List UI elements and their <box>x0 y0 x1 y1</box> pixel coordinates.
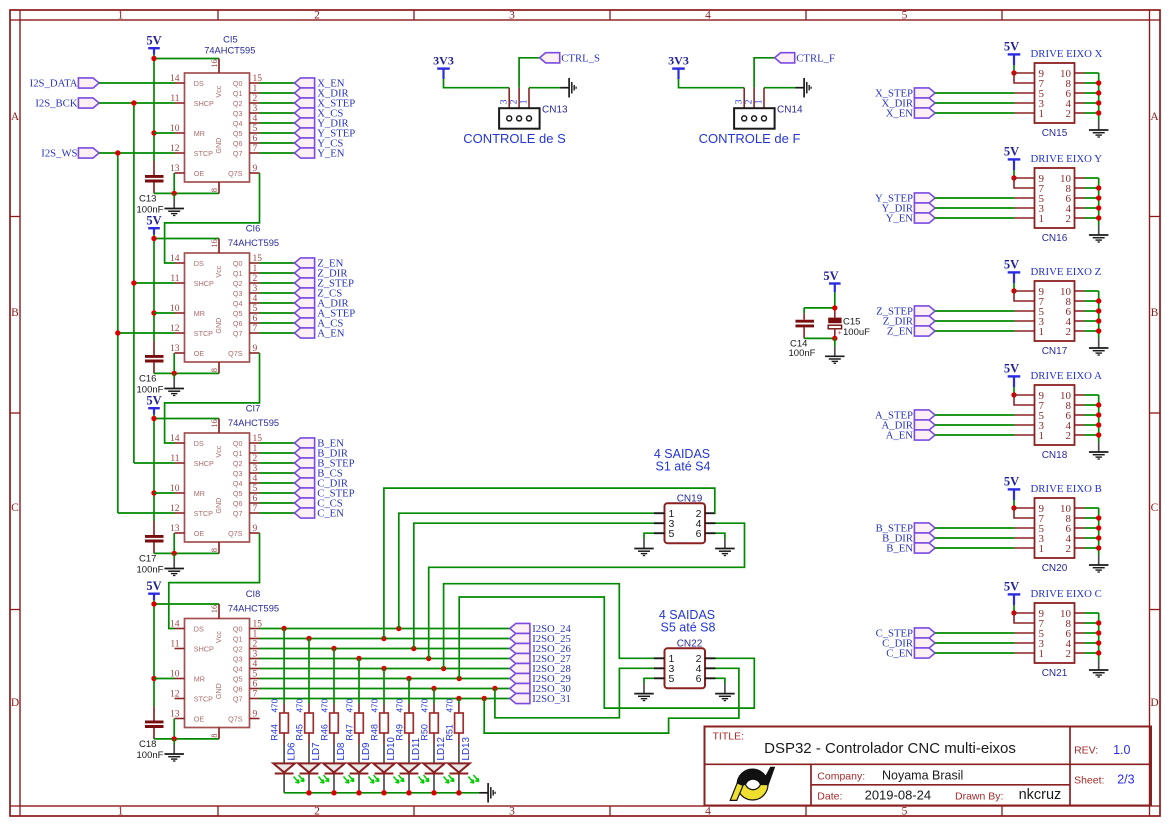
svg-text:DS: DS <box>194 439 204 448</box>
svg-text:9: 9 <box>253 709 258 719</box>
svg-text:74AHCT595: 74AHCT595 <box>228 418 279 428</box>
svg-text:6: 6 <box>696 528 702 540</box>
svg-text:CN16: CN16 <box>1042 233 1068 244</box>
svg-text:1: 1 <box>118 9 124 21</box>
svg-text:CONTROLE de F: CONTROLE de F <box>699 131 801 146</box>
svg-text:2: 2 <box>253 274 258 284</box>
svg-text:3: 3 <box>509 805 515 817</box>
svg-text:A: A <box>1150 111 1159 123</box>
svg-text:LD6: LD6 <box>286 742 297 761</box>
svg-text:1: 1 <box>519 99 529 104</box>
svg-text:Q7: Q7 <box>233 149 243 158</box>
svg-text:16: 16 <box>209 605 219 614</box>
svg-text:Q6: Q6 <box>233 499 243 508</box>
svg-text:Vcc: Vcc <box>214 85 223 97</box>
svg-text:74AHCT595: 74AHCT595 <box>228 238 279 248</box>
svg-text:Q5: Q5 <box>233 489 243 498</box>
svg-text:Q0: Q0 <box>233 79 243 88</box>
svg-text:STCP: STCP <box>194 329 213 338</box>
svg-text:11: 11 <box>170 639 179 649</box>
svg-text:Q4: Q4 <box>233 479 243 488</box>
svg-text:CN18: CN18 <box>1042 450 1068 461</box>
svg-text:DS: DS <box>194 624 204 633</box>
svg-text:8: 8 <box>209 733 219 737</box>
svg-text:DRIVE EIXO Z: DRIVE EIXO Z <box>1031 266 1102 278</box>
svg-text:1: 1 <box>1039 430 1045 442</box>
svg-text:B: B <box>11 307 19 319</box>
svg-text:Q6: Q6 <box>233 139 243 148</box>
svg-text:OE: OE <box>194 529 205 538</box>
svg-text:5: 5 <box>902 9 908 21</box>
svg-text:GND: GND <box>214 138 223 154</box>
svg-text:CI5: CI5 <box>223 35 237 45</box>
svg-text:9: 9 <box>253 344 258 354</box>
svg-text:SHCP: SHCP <box>194 99 214 108</box>
svg-text:1: 1 <box>1039 326 1045 338</box>
svg-text:Q1: Q1 <box>233 89 243 98</box>
svg-text:5V: 5V <box>1004 474 1019 488</box>
svg-text:Z_EN: Z_EN <box>887 326 913 338</box>
svg-text:1: 1 <box>253 629 258 639</box>
svg-text:Q3: Q3 <box>233 469 243 478</box>
svg-text:100nF: 100nF <box>137 564 164 575</box>
svg-text:5: 5 <box>669 673 675 685</box>
svg-text:10: 10 <box>170 304 180 314</box>
svg-text:nkcruz: nkcruz <box>1019 787 1062 803</box>
svg-text:5V: 5V <box>1004 257 1019 271</box>
svg-text:470: 470 <box>420 698 429 712</box>
svg-text:C: C <box>11 502 19 514</box>
svg-text:9: 9 <box>253 164 258 174</box>
svg-text:Q7: Q7 <box>233 509 243 518</box>
svg-text:R51: R51 <box>444 724 454 741</box>
svg-text:2: 2 <box>1066 430 1072 442</box>
svg-text:5: 5 <box>253 669 258 679</box>
svg-text:C_EN: C_EN <box>317 508 344 520</box>
svg-text:Vcc: Vcc <box>214 265 223 277</box>
svg-text:OE: OE <box>194 714 205 723</box>
svg-text:2: 2 <box>1066 543 1072 555</box>
svg-text:Q3: Q3 <box>233 289 243 298</box>
svg-text:CN17: CN17 <box>1042 346 1068 357</box>
svg-text:1: 1 <box>1039 648 1045 660</box>
svg-text:DS: DS <box>194 79 204 88</box>
svg-text:GND: GND <box>214 683 223 699</box>
svg-text:CN14: CN14 <box>777 105 803 116</box>
svg-text:6: 6 <box>253 134 258 144</box>
svg-text:100nF: 100nF <box>789 348 816 359</box>
svg-text:6: 6 <box>253 494 258 504</box>
svg-text:Q2: Q2 <box>233 99 243 108</box>
svg-text:Q1: Q1 <box>233 634 243 643</box>
svg-text:13: 13 <box>170 164 180 174</box>
svg-text:Drawn By:: Drawn By: <box>955 791 1003 803</box>
svg-text:13: 13 <box>170 709 180 719</box>
svg-text:LD7: LD7 <box>311 743 322 761</box>
svg-text:7: 7 <box>253 504 258 514</box>
svg-text:R50: R50 <box>419 724 429 741</box>
svg-text:7: 7 <box>253 324 258 334</box>
svg-text:3: 3 <box>253 649 258 659</box>
svg-text:3: 3 <box>253 464 258 474</box>
svg-text:B: B <box>1151 307 1159 319</box>
svg-text:C13: C13 <box>139 194 156 205</box>
svg-text:CN15: CN15 <box>1042 128 1068 139</box>
svg-text:3: 3 <box>509 9 515 21</box>
svg-text:2: 2 <box>510 99 520 104</box>
svg-text:6: 6 <box>253 314 258 324</box>
svg-text:Q6: Q6 <box>233 684 243 693</box>
svg-text:Q7S: Q7S <box>228 349 243 358</box>
svg-text:DRIVE EIXO B: DRIVE EIXO B <box>1031 483 1102 495</box>
svg-text:2: 2 <box>1066 648 1072 660</box>
svg-text:1: 1 <box>253 264 258 274</box>
svg-text:5: 5 <box>902 805 908 817</box>
svg-text:A_EN: A_EN <box>886 430 914 442</box>
svg-text:DRIVE EIXO X: DRIVE EIXO X <box>1031 48 1103 60</box>
svg-text:1: 1 <box>253 444 258 454</box>
svg-text:S1 até S4: S1 até S4 <box>656 460 711 474</box>
svg-text:8: 8 <box>209 548 219 552</box>
svg-text:Q0: Q0 <box>233 624 243 633</box>
svg-text:Q7S: Q7S <box>228 529 243 538</box>
svg-text:CN13: CN13 <box>542 105 568 116</box>
svg-text:Q0: Q0 <box>233 259 243 268</box>
svg-text:470: 470 <box>370 698 379 712</box>
svg-text:CN22: CN22 <box>677 639 703 650</box>
svg-text:R49: R49 <box>394 724 404 741</box>
svg-text:3: 3 <box>253 104 258 114</box>
svg-text:Q0: Q0 <box>233 439 243 448</box>
svg-text:6: 6 <box>253 679 258 689</box>
svg-text:DRIVE EIXO Y: DRIVE EIXO Y <box>1031 153 1103 165</box>
svg-text:D: D <box>11 697 19 709</box>
svg-text:7: 7 <box>253 144 258 154</box>
svg-text:SHCP: SHCP <box>194 459 214 468</box>
svg-text:CN20: CN20 <box>1042 563 1068 574</box>
svg-text:4: 4 <box>705 805 711 817</box>
svg-text:CI8: CI8 <box>246 589 260 599</box>
svg-text:STCP: STCP <box>194 509 213 518</box>
svg-text:I2S_DATA: I2S_DATA <box>30 78 78 90</box>
svg-text:74AHCT595: 74AHCT595 <box>228 603 279 613</box>
svg-text:R45: R45 <box>294 724 304 741</box>
svg-text:1: 1 <box>253 84 258 94</box>
svg-text:C: C <box>1151 502 1159 514</box>
svg-text:C17: C17 <box>139 554 156 565</box>
svg-text:5V: 5V <box>146 579 161 593</box>
svg-text:SHCP: SHCP <box>194 279 214 288</box>
svg-text:5V: 5V <box>146 34 161 48</box>
svg-text:DRIVE EIXO A: DRIVE EIXO A <box>1031 370 1103 382</box>
svg-text:3: 3 <box>253 284 258 294</box>
svg-text:B_EN: B_EN <box>886 543 913 555</box>
svg-text:4: 4 <box>253 659 258 669</box>
svg-text:470: 470 <box>395 698 404 712</box>
svg-text:5V: 5V <box>146 394 161 408</box>
svg-text:C_EN: C_EN <box>886 648 913 660</box>
svg-text:SHCP: SHCP <box>194 644 214 653</box>
svg-text:Q2: Q2 <box>233 279 243 288</box>
svg-text:100nF: 100nF <box>137 750 164 761</box>
svg-text:2: 2 <box>1066 213 1072 225</box>
svg-text:Q3: Q3 <box>233 654 243 663</box>
svg-text:2: 2 <box>1066 326 1072 338</box>
svg-text:D: D <box>1150 697 1158 709</box>
svg-text:Q7: Q7 <box>233 329 243 338</box>
svg-text:2: 2 <box>745 99 755 104</box>
svg-text:1: 1 <box>1039 108 1045 120</box>
svg-text:Q6: Q6 <box>233 319 243 328</box>
svg-text:CN19: CN19 <box>677 493 703 504</box>
svg-text:DRIVE EIXO C: DRIVE EIXO C <box>1031 588 1102 600</box>
svg-text:6: 6 <box>696 673 702 685</box>
svg-text:470: 470 <box>345 698 354 712</box>
svg-text:MR: MR <box>194 309 205 318</box>
svg-text:5V: 5V <box>1004 579 1019 593</box>
svg-text:Q2: Q2 <box>233 644 243 653</box>
svg-text:1: 1 <box>1039 543 1045 555</box>
svg-text:470: 470 <box>271 698 280 712</box>
svg-text:7: 7 <box>253 689 258 699</box>
svg-text:I2SO_31: I2SO_31 <box>532 693 571 705</box>
svg-text:2: 2 <box>253 639 258 649</box>
svg-text:1.0: 1.0 <box>1113 743 1130 757</box>
svg-text:Q4: Q4 <box>233 664 243 673</box>
svg-text:5: 5 <box>253 484 258 494</box>
svg-text:MR: MR <box>194 489 205 498</box>
svg-text:10: 10 <box>170 124 180 134</box>
svg-text:DS: DS <box>194 259 204 268</box>
svg-text:CTRL_F: CTRL_F <box>796 53 835 65</box>
svg-text:470: 470 <box>295 698 304 712</box>
svg-text:OE: OE <box>194 349 205 358</box>
svg-text:5V: 5V <box>1004 39 1019 53</box>
svg-text:470: 470 <box>320 698 329 712</box>
svg-text:12: 12 <box>170 689 180 699</box>
svg-text:13: 13 <box>170 344 180 354</box>
svg-text:Y_EN: Y_EN <box>886 213 914 225</box>
svg-text:2019-08-24: 2019-08-24 <box>865 788 932 803</box>
svg-text:Q4: Q4 <box>233 299 243 308</box>
svg-text:A: A <box>11 111 20 123</box>
svg-text:LD8: LD8 <box>336 742 347 761</box>
svg-text:2: 2 <box>253 454 258 464</box>
svg-text:1: 1 <box>754 99 764 104</box>
svg-text:8: 8 <box>209 368 219 372</box>
svg-text:13: 13 <box>170 524 180 534</box>
svg-text:STCP: STCP <box>194 694 213 703</box>
svg-text:2: 2 <box>253 94 258 104</box>
svg-text:5: 5 <box>669 528 675 540</box>
svg-text:LD9: LD9 <box>361 743 372 761</box>
svg-text:Company:: Company: <box>817 771 865 783</box>
svg-text:Date:: Date: <box>817 791 842 803</box>
svg-text:CI7: CI7 <box>246 404 260 414</box>
svg-text:8: 8 <box>209 188 219 192</box>
svg-text:Q7: Q7 <box>233 694 243 703</box>
svg-text:S5 até S8: S5 até S8 <box>661 620 716 634</box>
svg-text:2: 2 <box>1066 108 1072 120</box>
svg-text:DSP32 - Controlador CNC multi-: DSP32 - Controlador CNC multi-eixos <box>764 740 1016 757</box>
svg-text:5V: 5V <box>146 214 161 228</box>
svg-text:LD13: LD13 <box>461 737 472 761</box>
svg-text:Q7S: Q7S <box>228 714 243 723</box>
svg-text:1: 1 <box>1039 213 1045 225</box>
svg-text:3V3: 3V3 <box>668 54 689 68</box>
svg-text:16: 16 <box>209 419 219 428</box>
svg-text:Vcc: Vcc <box>214 631 223 643</box>
svg-text:+: + <box>838 328 843 337</box>
svg-text:100uF: 100uF <box>843 327 870 338</box>
svg-text:A_EN: A_EN <box>317 328 345 340</box>
svg-text:TITLE:: TITLE: <box>713 731 745 743</box>
svg-text:CI6: CI6 <box>246 224 260 234</box>
svg-text:CTRL_S: CTRL_S <box>561 53 600 65</box>
svg-text:2/3: 2/3 <box>1117 773 1134 787</box>
svg-text:2: 2 <box>314 805 320 817</box>
svg-text:C16: C16 <box>139 374 156 385</box>
svg-text:STCP: STCP <box>194 149 213 158</box>
svg-text:GND: GND <box>214 498 223 514</box>
svg-text:C18: C18 <box>139 739 156 750</box>
svg-text:Q5: Q5 <box>233 129 243 138</box>
svg-text:Q7S: Q7S <box>228 169 243 178</box>
svg-text:74AHCT595: 74AHCT595 <box>204 46 255 56</box>
svg-text:REV:: REV: <box>1074 745 1098 757</box>
svg-text:9: 9 <box>253 524 258 534</box>
svg-text:16: 16 <box>209 239 219 248</box>
svg-text:MR: MR <box>194 129 205 138</box>
svg-text:I2S_WS: I2S_WS <box>41 148 77 160</box>
svg-text:I2S_BCK: I2S_BCK <box>35 98 77 110</box>
svg-text:1: 1 <box>118 805 124 817</box>
svg-text:GND: GND <box>214 318 223 334</box>
svg-text:10: 10 <box>170 484 180 494</box>
svg-text:Q1: Q1 <box>233 449 243 458</box>
svg-text:CONTROLE de S: CONTROLE de S <box>463 131 566 146</box>
svg-text:Q4: Q4 <box>233 119 243 128</box>
svg-text:Y_EN: Y_EN <box>317 148 345 160</box>
svg-text:Sheet:: Sheet: <box>1074 775 1104 787</box>
svg-text:Q3: Q3 <box>233 109 243 118</box>
svg-text:R44: R44 <box>270 724 280 741</box>
svg-text:5V: 5V <box>823 269 838 283</box>
svg-text:R48: R48 <box>369 724 379 741</box>
svg-text:10: 10 <box>170 669 180 679</box>
svg-text:MR: MR <box>194 674 205 683</box>
svg-text:Q5: Q5 <box>233 309 243 318</box>
svg-text:4: 4 <box>705 9 711 21</box>
svg-text:16: 16 <box>209 59 219 68</box>
svg-text:3V3: 3V3 <box>433 54 454 68</box>
svg-text:3: 3 <box>735 99 745 104</box>
svg-text:Q2: Q2 <box>233 459 243 468</box>
svg-text:5V: 5V <box>1004 361 1019 375</box>
svg-text:R46: R46 <box>319 724 329 741</box>
svg-text:Vcc: Vcc <box>214 445 223 457</box>
svg-text:470: 470 <box>445 698 454 712</box>
svg-text:5: 5 <box>253 124 258 134</box>
svg-text:Noyama Brasil: Noyama Brasil <box>882 769 963 783</box>
svg-text:4: 4 <box>253 474 258 484</box>
svg-text:5V: 5V <box>1004 144 1019 158</box>
svg-text:4: 4 <box>253 114 258 124</box>
svg-text:X_EN: X_EN <box>886 108 914 120</box>
svg-text:3: 3 <box>500 99 510 104</box>
svg-text:R47: R47 <box>344 724 354 741</box>
svg-text:OE: OE <box>194 169 205 178</box>
svg-text:5: 5 <box>253 304 258 314</box>
svg-text:4: 4 <box>253 294 258 304</box>
svg-text:CN21: CN21 <box>1042 668 1068 679</box>
svg-text:2: 2 <box>314 9 320 21</box>
svg-text:Q5: Q5 <box>233 674 243 683</box>
svg-text:Q1: Q1 <box>233 269 243 278</box>
